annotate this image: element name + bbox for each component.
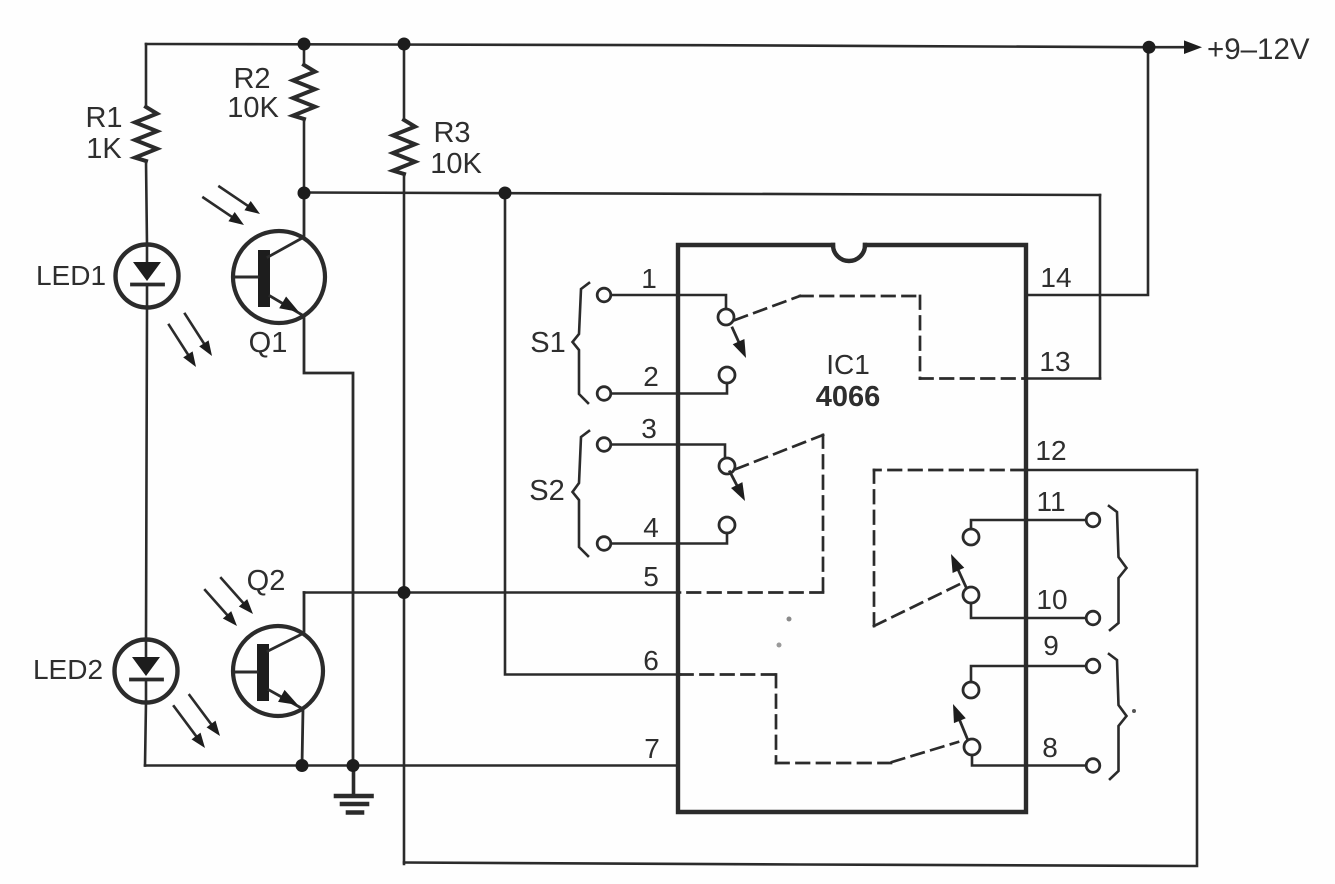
pin 3 wire — [611, 445, 726, 458]
pin 2 wire — [611, 383, 728, 394]
switch U1c pins 11-10 — [945, 513, 1100, 625]
S2 brace — [573, 431, 590, 556]
node Q1 collector — [298, 187, 311, 200]
LED2 light arrow b — [185, 692, 224, 740]
wire ground rail to pin 7 — [145, 764, 678, 767]
svg-text:1K: 1K — [86, 133, 122, 165]
wire pin 13 stub — [1026, 377, 1100, 380]
pin 2 terminal — [597, 387, 611, 401]
svg-text:+9–12V: +9–12V — [1207, 33, 1310, 66]
Q2 light arrow b — [217, 574, 257, 617]
wire R3 bottom down to bottom rail — [403, 174, 406, 864]
speck near brace — [1132, 709, 1136, 713]
transistor Q1 — [233, 193, 353, 766]
resistor R1 — [85, 102, 157, 165]
svg-text:4: 4 — [643, 512, 659, 543]
switch S2 arm arrow — [724, 469, 751, 504]
LED2 — [33, 640, 178, 703]
svg-text:LED1: LED1 — [36, 260, 106, 291]
pin 4 wire — [611, 533, 728, 544]
svg-text:Q1: Q1 — [249, 327, 288, 359]
brace pins 11-10 — [1109, 506, 1127, 630]
node power arrow junction — [1143, 41, 1156, 54]
wire node 505 drop to pin 6 — [505, 193, 680, 675]
wire pin 5 row — [304, 591, 680, 594]
power arrow +9-12V — [1184, 33, 1310, 66]
node ground tap — [347, 759, 360, 772]
node bias to pin 6 — [499, 187, 512, 200]
switch U1c control dashed from pin 12 — [874, 470, 1024, 626]
wire LED1 to LED2 — [146, 307, 147, 640]
wire top power rail — [146, 44, 1186, 47]
brace pins 9-8 — [1109, 654, 1127, 779]
svg-text:10K: 10K — [430, 148, 482, 180]
wire bottom rail — [404, 470, 1197, 866]
svg-text:3: 3 — [641, 413, 657, 444]
svg-text:2: 2 — [643, 361, 659, 392]
svg-text:9: 9 — [1043, 630, 1059, 661]
svg-text:7: 7 — [644, 733, 660, 764]
resistor R3 — [393, 44, 482, 180]
pin 1 wire — [611, 295, 727, 308]
wire LED2 to ground rail — [145, 702, 146, 766]
paper speck b — [777, 643, 782, 648]
wire bias drop to pin 13 — [1099, 195, 1102, 379]
svg-text:10: 10 — [1036, 584, 1067, 615]
svg-text:1: 1 — [641, 263, 657, 294]
wire R2 bottom to bias node — [303, 119, 306, 193]
paper speck a — [787, 617, 792, 622]
svg-text:6: 6 — [643, 645, 659, 676]
Q2 light arrow a — [201, 586, 241, 629]
LED1 light arrow b — [180, 311, 216, 359]
switch S1 upper contact — [718, 309, 734, 325]
Q1 light arrow a — [200, 193, 247, 230]
svg-text:LED2: LED2 — [33, 654, 103, 685]
transistor Q2 — [233, 565, 323, 766]
pin 4 terminal — [597, 537, 611, 551]
switch S2 upper contact — [719, 458, 735, 474]
switch U1d pins 9-8 — [947, 659, 1100, 772]
switch U1d control dashed from pin 6 — [680, 675, 958, 764]
svg-text:R3: R3 — [433, 117, 470, 149]
LED2 light arrow a — [169, 703, 209, 751]
switch S1 control dashed to pin 13 — [735, 296, 1026, 379]
Q1 light arrow b — [216, 182, 263, 219]
S1 brace — [573, 283, 590, 403]
svg-text:10K: 10K — [227, 92, 279, 124]
svg-text:14: 14 — [1040, 262, 1071, 293]
node R2 top — [298, 38, 311, 51]
switch S1 arm arrow — [727, 325, 752, 360]
wire pin 12 — [1026, 469, 1197, 472]
svg-text:5: 5 — [643, 561, 659, 592]
pin 1 terminal — [597, 288, 611, 302]
wire left rail upper — [145, 44, 148, 107]
svg-text:8: 8 — [1042, 732, 1058, 763]
svg-text:R1: R1 — [85, 102, 122, 134]
resistor R2 — [227, 44, 315, 124]
wire bias row — [304, 193, 1100, 196]
svg-text:12: 12 — [1035, 435, 1066, 466]
svg-text:4066: 4066 — [816, 381, 881, 413]
node R3 to pin 5 — [398, 586, 411, 599]
svg-text:S2: S2 — [529, 475, 564, 507]
op-amp IC1 4066 body — [678, 245, 1026, 812]
LED1 — [36, 245, 179, 308]
svg-text:Q2: Q2 — [247, 565, 286, 597]
svg-text:IC1: IC1 — [826, 349, 870, 380]
ground — [336, 766, 372, 813]
switch S2 control dashed to pin 5 — [680, 435, 823, 593]
switch S2 lower contact — [719, 517, 735, 533]
svg-text:R2: R2 — [233, 63, 270, 95]
switch S1 lower contact — [719, 367, 735, 383]
svg-text:S1: S1 — [530, 327, 565, 359]
pin 3 terminal — [597, 438, 611, 452]
wire pin 14 to power — [1026, 47, 1148, 295]
wire R1 to LED1 — [146, 161, 147, 245]
node R3 top — [398, 38, 411, 51]
svg-text:11: 11 — [1036, 486, 1065, 517]
node Q2 emitter ground — [296, 759, 309, 772]
LED1 light arrow a — [164, 322, 200, 370]
svg-text:13: 13 — [1039, 346, 1070, 377]
